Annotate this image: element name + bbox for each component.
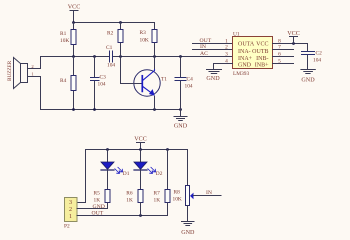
svg-text:IN: IN [200,44,206,50]
resistor R6 [126,190,143,216]
svg-text:D2: D2 [156,171,163,177]
wire bottom top rail [86,149,188,151]
transistor T1 [121,57,168,110]
node emitter bottom [153,108,156,111]
wire P2 pin1 OUT net to R6/R7 [77,215,168,217]
svg-text:3: 3 [69,200,72,206]
svg-text:INB+: INB+ [255,63,269,69]
svg-text:104: 104 [98,82,106,88]
svg-text:GND: GND [181,230,195,236]
node R2/base [119,55,122,58]
node D1 branch [106,148,109,151]
op-amp U1 LM393 [225,31,281,77]
svg-text:R8: R8 [174,190,181,196]
connector P2 [64,198,77,230]
svg-text:OUTA: OUTA [238,42,255,48]
svg-text:GND: GND [206,76,220,82]
power VCC (top circuit) [68,5,81,23]
LED D2 [134,150,163,190]
svg-text:R1: R1 [60,31,67,37]
wire U1 pin7 stub [273,49,294,51]
node pin8/VCC [292,42,295,45]
resistor R2 [107,23,123,57]
resistor R4 [60,57,76,110]
resistor R1 [60,23,76,57]
svg-text:INB-: INB- [256,56,268,62]
LED D1 [101,150,130,190]
svg-text:U1: U1 [233,31,240,37]
potentiometer R8 [173,150,194,221]
svg-text:GND: GND [238,63,252,69]
svg-text:LM393: LM393 [233,71,249,77]
svg-text:3: 3 [225,52,228,58]
capacitor C1 [106,45,115,69]
svg-text:OUT: OUT [92,211,104,217]
svg-text:OUTB: OUTB [252,49,268,55]
svg-text:D1: D1 [123,171,130,177]
ground (R8 bottom) [181,222,195,237]
svg-text:R4: R4 [60,78,67,84]
wire buzzer pin1 to ground rail [28,77,41,110]
svg-text:C2: C2 [316,50,323,56]
svg-text:R6: R6 [126,191,133,197]
resistor R5 [94,190,111,209]
svg-text:1K: 1K [94,197,101,203]
node C4 bottom [179,108,182,111]
svg-text:C1: C1 [106,45,113,51]
wire net OUT (U1 pin1) [193,43,233,45]
svg-text:INA-: INA- [238,49,251,55]
svg-text:1K: 1K [154,197,161,203]
wire net IN (U1 pin2) [193,49,233,51]
node VCC/D2 branch [139,148,142,151]
resistor R7 [154,150,171,216]
svg-text:C3: C3 [100,75,107,81]
svg-text:BUZZER: BUZZER [7,60,13,81]
wire U1 pin4 to ground [214,64,233,70]
wire main horizontal net y=56 [41,56,233,58]
svg-text:INA+: INA+ [238,56,253,62]
node C4 top [179,55,182,58]
node C3 bottom [93,108,96,111]
svg-text:2: 2 [69,207,72,213]
ground (C2) [301,70,315,84]
buzzer LS [7,58,28,89]
wire top rail [74,22,155,24]
svg-text:1: 1 [69,214,72,220]
power VCC (bottom circuit) [134,137,147,150]
svg-text:GND: GND [174,124,188,130]
svg-text:IN: IN [206,190,212,196]
ground (top circuit) [174,110,188,130]
svg-text:R3: R3 [140,30,147,36]
resistor R3 [140,23,158,57]
svg-text:10K: 10K [140,38,149,44]
wire buzzer pin2 to net [28,57,41,69]
svg-text:AC: AC [200,51,208,57]
wire rail to P2 pin3 [77,150,86,203]
wire bottom rail (emitter/ground net) [41,109,181,111]
svg-text:VCC: VCC [134,137,147,143]
capacitor C3 [91,57,107,110]
capacitor C2 [302,44,323,70]
svg-text:VCC: VCC [256,42,268,48]
wire net IN to R8 wiper [193,195,221,197]
svg-text:10K: 10K [60,38,69,44]
ground (U1 pin4) [206,70,221,83]
svg-text:P2: P2 [64,223,70,229]
svg-text:1K: 1K [126,197,133,203]
svg-text:C4: C4 [187,77,194,83]
svg-text:R5: R5 [94,191,101,197]
svg-text:104: 104 [107,63,115,69]
node C3 top [93,55,96,58]
svg-text:OUT: OUT [200,38,212,44]
svg-text:104: 104 [185,84,193,90]
svg-text:10K: 10K [173,196,182,202]
wire P2 pin2 GND net to R5 [77,208,108,210]
svg-text:VCC: VCC [68,5,81,11]
node R3/collector [153,55,156,58]
svg-text:R2: R2 [107,31,114,37]
node junction VCC/R1 [72,21,75,24]
node R1/R4 [72,55,75,58]
svg-text:104: 104 [313,58,321,64]
wire U1 pin6 stub [273,56,294,58]
node R6 bottom [139,214,142,217]
wire U1 pin8 to VCC and C2 [273,43,308,45]
node junction R2 top [119,21,122,24]
svg-text:GND: GND [301,78,315,84]
node R4 bottom [72,108,75,111]
node R7 branch [166,148,169,151]
power VCC (U1 pin8) [287,31,300,43]
svg-text:T1: T1 [161,77,167,83]
svg-text:GND: GND [93,204,105,210]
svg-text:2: 2 [225,45,228,51]
svg-text:R7: R7 [154,191,161,197]
capacitor C4 [175,57,193,110]
wire U1 pin5 stub [273,63,294,65]
